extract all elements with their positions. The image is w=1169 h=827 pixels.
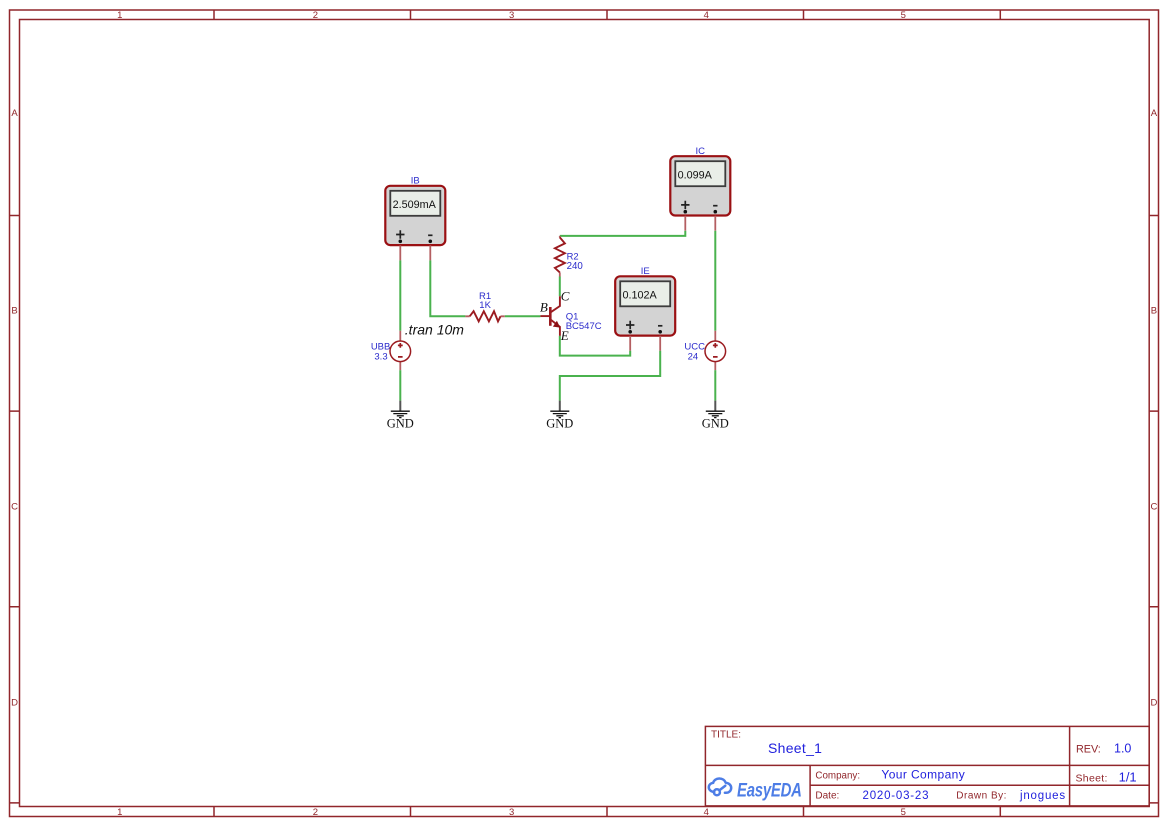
ruler letters right — [1150, 108, 1157, 709]
source UCC pin stubs — [714, 331, 716, 371]
svg-text:TITLE:: TITLE: — [711, 730, 741, 741]
svg-text:240: 240 — [567, 261, 584, 272]
svg-text:Date:: Date: — [815, 791, 839, 802]
svg-text:REV:: REV: — [1076, 743, 1101, 755]
svg-text:.tran 10m: .tran 10m — [405, 322, 464, 338]
wire IE- to GND — [560, 351, 660, 401]
svg-text:R2: R2 — [567, 250, 579, 261]
svg-text:2: 2 — [313, 10, 318, 21]
ruler ticks right — [1149, 216, 1158, 803]
pin stub IE- — [659, 336, 661, 351]
svg-text:BC547C: BC547C — [566, 321, 602, 332]
ruler ticks top — [214, 10, 1000, 20]
ruler numbers top — [117, 10, 906, 21]
transistor Q1 — [540, 296, 560, 336]
svg-text:1: 1 — [117, 807, 122, 818]
svg-text:Sheet_1: Sheet_1 — [768, 740, 822, 756]
ground GND right — [702, 401, 729, 431]
svg-text:C: C — [11, 502, 18, 513]
svg-text:0.102A: 0.102A — [623, 290, 658, 302]
ruler letters left — [11, 108, 18, 709]
svg-text:2020-03-23: 2020-03-23 — [863, 790, 930, 802]
ground GND middle — [546, 401, 573, 431]
pin stub IC+ — [684, 216, 686, 231]
EasyEDA logo cloud — [709, 779, 731, 796]
svg-text:Sheet:: Sheet: — [1076, 772, 1108, 784]
svg-text:EasyEDA: EasyEDA — [737, 780, 802, 801]
svg-text:GND: GND — [546, 416, 573, 430]
wire UBB to GND — [399, 370, 401, 400]
wire UCC to GND — [714, 370, 716, 400]
svg-text:2: 2 — [313, 807, 318, 818]
ammeter IC — [670, 156, 730, 215]
svg-text:D: D — [11, 698, 18, 709]
svg-text:D: D — [1150, 698, 1157, 709]
svg-text:Company:: Company: — [815, 770, 860, 781]
resistor R2 pin stubs — [559, 236, 561, 277]
pin stub IC- — [714, 216, 716, 231]
ruler ticks bottom — [214, 807, 1000, 817]
wire R2 bottom to collector — [559, 277, 561, 297]
pin stub IB- — [429, 245, 431, 260]
svg-text:1: 1 — [117, 10, 122, 21]
svg-text:jnogues: jnogues — [1019, 790, 1066, 802]
svg-text:GND: GND — [387, 416, 414, 430]
svg-text:B: B — [540, 299, 548, 314]
svg-text:IB: IB — [411, 175, 420, 186]
svg-text:3: 3 — [509, 807, 514, 818]
svg-text:1K: 1K — [479, 300, 491, 311]
svg-text:4: 4 — [704, 807, 709, 818]
source UCC — [705, 341, 726, 362]
resistor R1 — [470, 311, 501, 321]
wire IC- to UCC — [714, 231, 716, 331]
svg-text:5: 5 — [901, 10, 906, 21]
svg-text:B: B — [11, 306, 17, 317]
svg-text:3.3: 3.3 — [374, 352, 387, 363]
svg-text:1/1: 1/1 — [1119, 770, 1137, 785]
pin stub IE+ — [629, 336, 631, 351]
svg-text:GND: GND — [702, 416, 729, 430]
svg-text:5: 5 — [901, 807, 906, 818]
wire R1 to base — [505, 315, 541, 317]
resistor R2 — [555, 237, 565, 272]
svg-text:C: C — [561, 289, 570, 304]
svg-text:0.099A: 0.099A — [678, 170, 713, 182]
wire IC+ to R2 top — [560, 231, 686, 236]
svg-text:Your Company: Your Company — [881, 768, 965, 782]
resistor R1 pin stubs — [465, 315, 504, 317]
svg-text:1.0: 1.0 — [1114, 741, 1131, 755]
ammeter IB — [385, 186, 445, 245]
svg-text:2.509mA: 2.509mA — [393, 199, 437, 211]
ruler numbers bottom — [117, 807, 906, 818]
svg-text:4: 4 — [704, 10, 709, 21]
svg-text:24: 24 — [688, 352, 699, 363]
svg-text:A: A — [1151, 108, 1158, 119]
wire IB+ to UBB — [399, 260, 401, 330]
ruler ticks left — [10, 216, 20, 803]
title block — [705, 726, 1149, 806]
wire IB- to R1 — [430, 260, 465, 316]
source UBB pin stubs — [399, 331, 401, 371]
svg-text:IC: IC — [696, 146, 706, 157]
svg-text:Drawn By:: Drawn By: — [956, 791, 1007, 802]
svg-text:C: C — [1150, 502, 1157, 513]
svg-text:A: A — [11, 108, 18, 119]
svg-text:3: 3 — [509, 10, 514, 21]
wire emitter to IE+ — [560, 336, 630, 356]
pin stub IB+ — [399, 245, 401, 260]
svg-text:IE: IE — [641, 266, 650, 277]
ammeter IE — [615, 276, 675, 335]
svg-text:B: B — [1151, 306, 1157, 317]
ground GND left — [387, 401, 414, 431]
source UBB — [390, 341, 411, 362]
